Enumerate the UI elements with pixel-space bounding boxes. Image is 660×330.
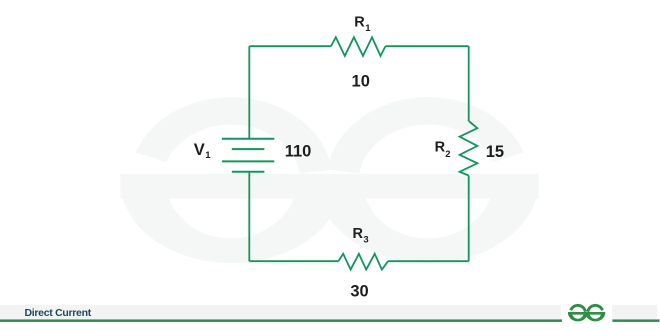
wire right upper bbox=[468, 46, 470, 121]
footer gray band left bbox=[0, 305, 561, 319]
wire top-right horizontal bbox=[386, 45, 469, 47]
svg-text:Direct Current: Direct Current bbox=[25, 307, 92, 319]
svg-text:V: V bbox=[194, 141, 205, 159]
resistor R3 bbox=[338, 254, 388, 270]
wire left upper (top to battery) bbox=[248, 46, 250, 139]
label R2 bbox=[435, 139, 451, 160]
wire bottom-right horizontal bbox=[388, 260, 469, 262]
svg-text:10: 10 bbox=[352, 73, 370, 91]
svg-text:1: 1 bbox=[365, 23, 371, 34]
wire top-left horizontal bbox=[249, 45, 331, 47]
svg-text:3: 3 bbox=[363, 234, 368, 245]
svg-text:R: R bbox=[353, 226, 364, 242]
svg-text:15: 15 bbox=[486, 143, 504, 161]
svg-text:2: 2 bbox=[445, 149, 450, 160]
label R3 bbox=[353, 226, 369, 245]
footer gray band right bbox=[612, 305, 657, 319]
footer GeeksforGeeks logo bbox=[568, 305, 605, 321]
battery V1 bbox=[222, 139, 274, 172]
resistor R1 bbox=[331, 37, 386, 56]
watermark logo bbox=[120, 111, 538, 263]
footer green underline right bbox=[612, 319, 659, 322]
svg-text:110: 110 bbox=[285, 142, 312, 160]
label V1 bbox=[194, 141, 212, 161]
svg-text:1: 1 bbox=[205, 150, 211, 161]
svg-text:R: R bbox=[354, 15, 365, 31]
svg-text:30: 30 bbox=[350, 283, 368, 301]
footer green underline left bbox=[0, 319, 562, 322]
label R1 bbox=[354, 15, 371, 35]
wire bottom-left horizontal bbox=[249, 260, 338, 262]
svg-text:R: R bbox=[435, 139, 446, 155]
resistor R2 bbox=[460, 121, 478, 176]
wire right lower bbox=[468, 176, 470, 262]
wire left lower (battery to bottom) bbox=[248, 172, 250, 262]
